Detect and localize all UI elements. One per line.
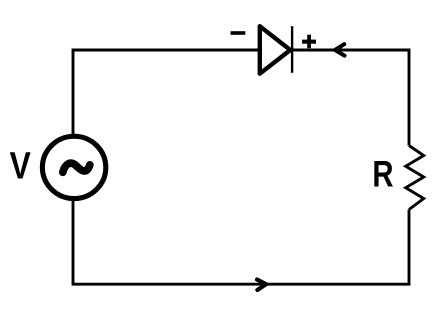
- label plus (anode polarity): [302, 35, 316, 49]
- diode D1: cathode bar: [291, 26, 293, 73]
- label minus (cathode polarity): [231, 31, 246, 35]
- current arrow top (pointing left): [335, 44, 345, 55]
- wire top-right + right-upper segment: [291, 50, 409, 146]
- AC source V: circle: [42, 136, 105, 198]
- label V: [10, 145, 32, 187]
- diode D1: triangle (anode): [260, 26, 291, 73]
- svg-text:R: R: [372, 155, 393, 196]
- AC source V: sine tilde: [63, 163, 90, 172]
- resistor R zigzag: [406, 146, 424, 210]
- wire left-upper + top-left segment: [73, 50, 261, 136]
- current arrow bottom (pointing right): [257, 280, 266, 291]
- label R: [372, 155, 393, 196]
- wire right-lower + bottom + left-lower segment: [73, 200, 409, 285]
- svg-text:V: V: [10, 145, 32, 187]
